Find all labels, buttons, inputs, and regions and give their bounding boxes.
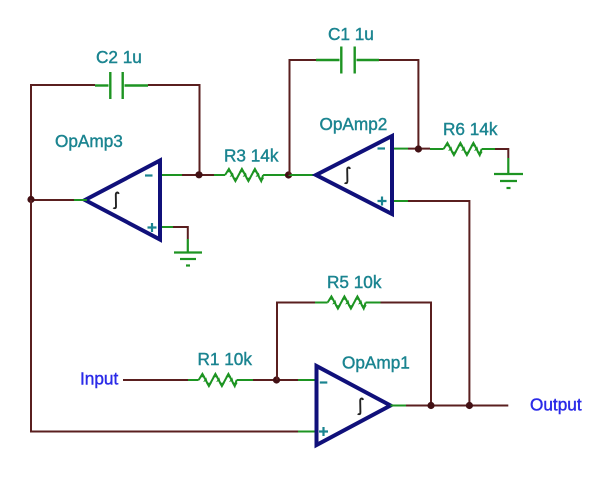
op-amp U2 plus input mark [378, 197, 387, 206]
wire: C1 feedback loop left vertical and top [290, 60, 317, 175]
wire: R6 to ground corner [495, 149, 508, 158]
wire: R5 right side down to output node G [381, 303, 432, 406]
op-amp U2 minus input mark [378, 147, 386, 149]
node C junction dot (OpAmp2 output node) [285, 171, 292, 178]
resistor R1 [188, 372, 253, 388]
wire: OpAmp3 output to node A [31, 199, 74, 201]
wire: node E up and across R5 feedback loop [277, 303, 315, 381]
op-amp U2 integrator glyph [345, 167, 350, 183]
wire: OpAmp3 minus input pin lead [162, 174, 182, 176]
svg-text:Input: Input [80, 369, 118, 389]
op-amp U2 OpAmp2 triangle (mirrored, output left) [316, 136, 392, 214]
svg-text:R3 14k: R3 14k [224, 146, 279, 166]
wire: OpAmp1 output pin lead [391, 405, 407, 407]
node D junction dot [415, 145, 422, 152]
wire: OpAmp2 plus input down to output bus node F [408, 201, 469, 406]
svg-text:R5 10k: R5 10k [327, 272, 382, 292]
wire: OpAmp3 minus input to node B [182, 174, 214, 176]
wire: OpAmp3 plus input to ground corner [173, 227, 188, 239]
wire: OpAmp1 plus input pin lead [298, 431, 315, 433]
op-amp U3 plus input mark [148, 223, 157, 232]
wire: OpAmp1 minus input pin lead [298, 379, 315, 381]
wire: C2 right side down to node B [148, 85, 200, 175]
wire: R1 to node E [253, 379, 298, 381]
svg-text:R6 14k: R6 14k [443, 119, 498, 139]
svg-text:C2 1u: C2 1u [96, 47, 142, 67]
op-amp U3 OpAmp3 triangle (mirrored, output left) [85, 161, 160, 240]
resistor R3 [214, 167, 287, 183]
wire: C2 feedback loop left vertical and top from node A to capacitor [31, 85, 95, 200]
wire: node A down and along bottom to OpAmp1 plus input [31, 200, 298, 432]
wire: OpAmp2 plus input pin lead [394, 200, 408, 202]
ground symbol for R6 [494, 158, 523, 188]
wire: OpAmp1 output to Output terminal [406, 405, 508, 407]
svg-text:OpAmp3: OpAmp3 [55, 131, 123, 151]
node B junction dot [195, 171, 202, 178]
op-amp U1 plus input mark [319, 427, 328, 436]
op-amp U3 integrator glyph [113, 192, 118, 208]
wire: OpAmp2 minus input to node D [408, 148, 430, 150]
svg-text:OpAmp2: OpAmp2 [320, 114, 388, 134]
svg-text:R1 10k: R1 10k [198, 349, 253, 369]
node E junction dot [273, 376, 280, 383]
svg-text:Output: Output [530, 395, 582, 415]
ground symbol for OpAmp3 [174, 239, 202, 266]
wire: Input to R1 [123, 379, 188, 381]
op-amp U3 minus input mark [145, 174, 153, 176]
op-amp U1 OpAmp1 triangle (output right) [317, 366, 391, 445]
wire: OpAmp3 plus input pin lead [162, 226, 173, 228]
wire: OpAmp2 minus input pin lead [394, 148, 408, 150]
wire: C1 right side down to node D [379, 60, 418, 149]
op-amp U1 minus input mark [320, 381, 328, 383]
capacitor C2 [95, 72, 148, 99]
wire: node C to OpAmp2 output apex pin lead [289, 174, 315, 176]
node F junction dot [466, 402, 473, 409]
capacitor C1 [316, 47, 379, 74]
node G junction dot [427, 402, 434, 409]
svg-text:OpAmp1: OpAmp1 [342, 353, 410, 373]
resistor R6 [430, 141, 495, 157]
op-amp U1 integrator glyph [358, 398, 363, 414]
wire: OpAmp3 output pin lead [74, 199, 87, 201]
node A junction dot [27, 196, 34, 203]
svg-text:C1 1u: C1 1u [328, 24, 374, 44]
resistor R5 [315, 295, 381, 311]
